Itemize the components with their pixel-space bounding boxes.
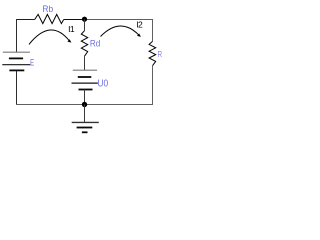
wire: top-left horizontal segment from E branch corner to Rb: [16, 19, 35, 21]
svg-text:U0: U0: [97, 78, 108, 89]
wire: U0 down to node B: [84, 90, 86, 105]
battery E plate 2 (short black): [9, 57, 23, 59]
battery U0 plate 4 (short black): [79, 89, 93, 91]
battery U0 plate 1 (long gray): [73, 69, 97, 71]
current arrow I2: [101, 26, 140, 36]
node A junction dot: [82, 17, 87, 22]
resistor Rb: [35, 14, 64, 23]
arrowhead I2: [137, 34, 141, 37]
node B junction dot: [82, 102, 87, 107]
svg-text:Rd: Rd: [90, 39, 100, 49]
battery E plate 1 (long gray): [3, 51, 30, 53]
ground bottom line: [82, 131, 88, 133]
ground top line: [72, 121, 99, 123]
bottom wire: [16, 104, 153, 106]
resistor Rd: [81, 31, 87, 57]
wire: Rd down to U0: [84, 56, 86, 70]
wire: left branch vertical (bottom of E): [16, 71, 18, 105]
current arrow I1: [29, 30, 70, 44]
arrowhead I1: [67, 39, 71, 42]
svg-text:I1: I1: [68, 24, 75, 34]
battery E plate 4 (short black): [9, 69, 24, 71]
wire: Rb to node A: [64, 19, 85, 21]
battery U0 plate 3 (long black): [72, 82, 98, 84]
svg-text:Rb: Rb: [42, 4, 53, 14]
wire: node A down to Rd: [84, 19, 86, 31]
ground middle line: [77, 127, 93, 129]
wire: top-right vertical to R: [152, 19, 154, 41]
wire: R down to bottom-right corner: [152, 66, 154, 105]
svg-text:R: R: [157, 49, 162, 59]
wire: left branch vertical (top of E): [16, 19, 18, 52]
resistor R: [149, 41, 156, 65]
wire: node A to top-right corner: [85, 19, 153, 21]
wire: node B down to ground: [84, 105, 86, 123]
svg-text:I2: I2: [136, 20, 143, 30]
battery E plate 3 (long black): [2, 64, 30, 66]
battery U0 plate 2 (short black): [78, 76, 92, 78]
svg-text:E: E: [30, 57, 34, 67]
